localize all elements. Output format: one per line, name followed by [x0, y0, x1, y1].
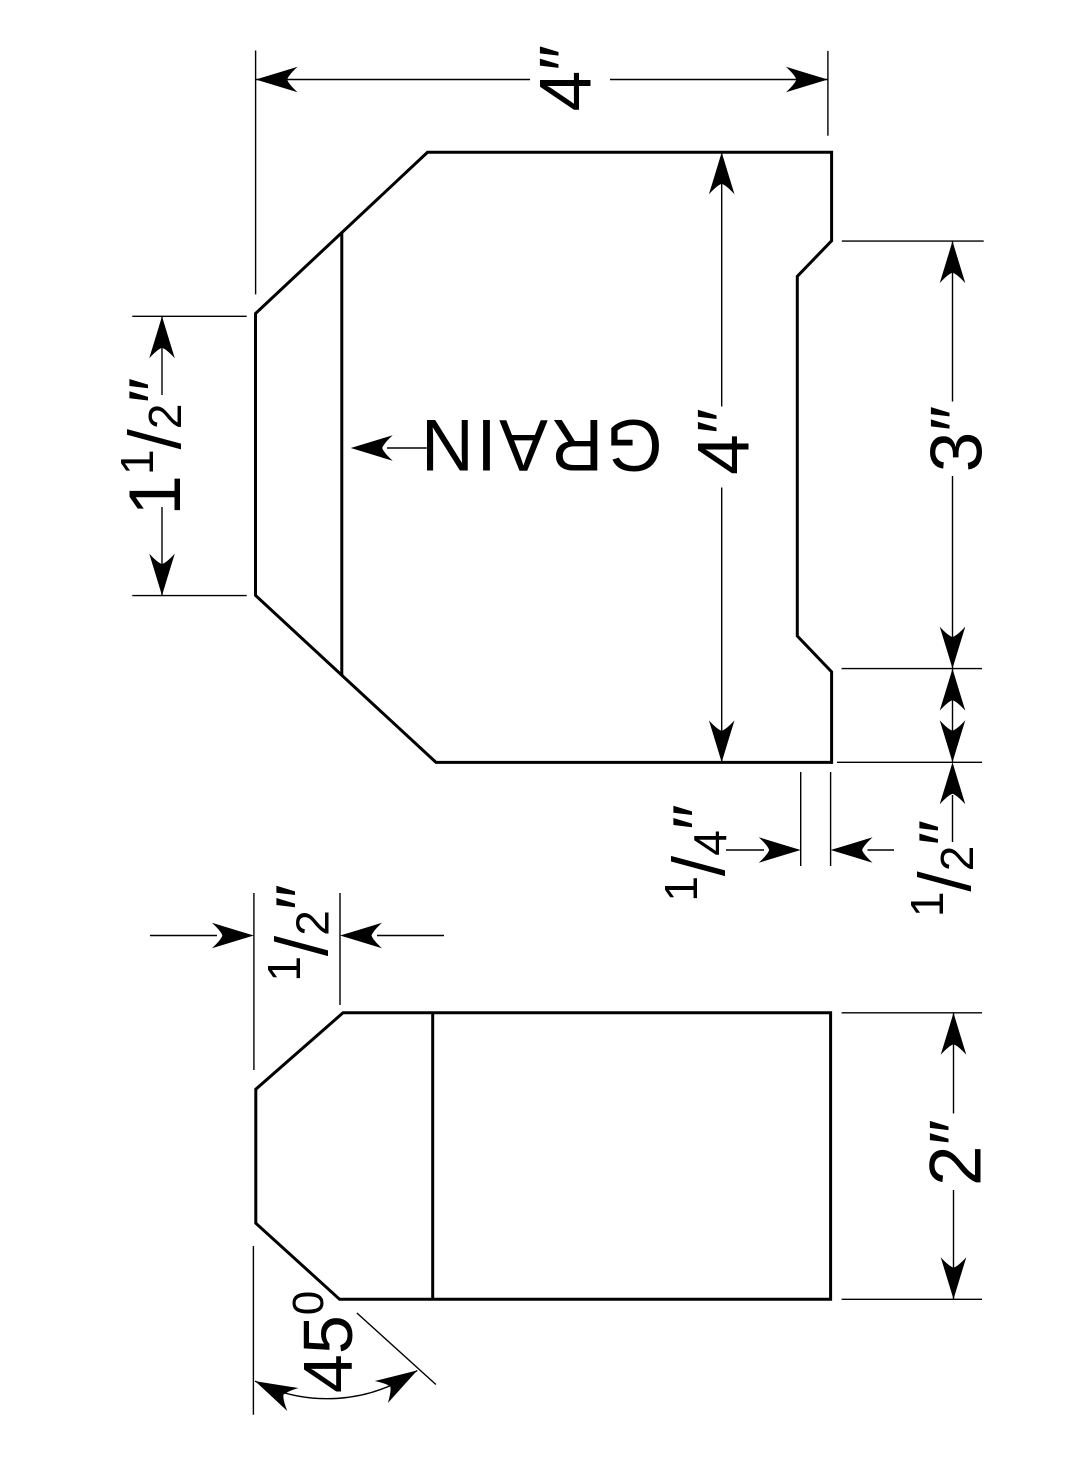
- svg-text:3″: 3″: [917, 406, 998, 472]
- svg-text:1/4″: 1/4″: [655, 804, 740, 901]
- svg-text:1/2″: 1/2″: [901, 820, 986, 917]
- svg-text:2″: 2″: [916, 1120, 997, 1186]
- svg-text:GRAIN: GRAIN: [418, 404, 662, 485]
- svg-text:11/2″: 11/2″: [111, 378, 196, 516]
- svg-text:1/2″: 1/2″: [258, 884, 343, 981]
- svg-text:4″: 4″: [526, 45, 607, 111]
- svg-text:450: 450: [284, 1291, 367, 1393]
- svg-text:4″: 4″: [684, 408, 765, 474]
